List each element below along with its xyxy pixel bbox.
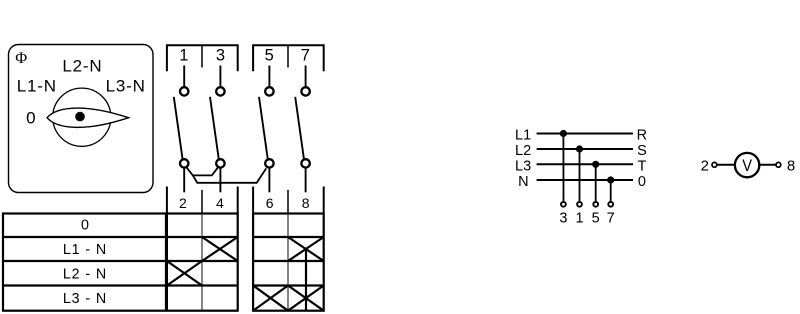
wire link terminals 2-4 bbox=[187, 167, 218, 175]
wire terminal 6 down bbox=[268, 168, 270, 192]
contact circle terminal 6 bbox=[265, 159, 273, 167]
open terminal circle 7 bbox=[608, 202, 613, 207]
contact circle terminal 2 bbox=[180, 159, 188, 167]
svg-text:4: 4 bbox=[216, 195, 224, 211]
wire terminal 7 to contact bbox=[305, 66, 307, 87]
svg-text:7: 7 bbox=[607, 210, 615, 226]
rotary switch S1 front-plate box bbox=[9, 45, 154, 193]
wire terminal 8 down bbox=[305, 168, 307, 192]
switching table columns 6 and 8 bbox=[253, 214, 324, 311]
svg-text:8: 8 bbox=[787, 157, 795, 174]
contact circle terminal 3 bbox=[216, 87, 224, 95]
svg-text:V: V bbox=[742, 157, 752, 175]
wire N bus bbox=[537, 179, 633, 181]
svg-text:L2 - N: L2 - N bbox=[63, 266, 107, 282]
svg-text:8: 8 bbox=[302, 195, 310, 211]
contact circle terminal 1 bbox=[180, 87, 188, 95]
svg-text:L3 - N: L3 - N bbox=[63, 291, 107, 307]
wire terminal 5 to contact bbox=[268, 66, 270, 87]
svg-text:L2: L2 bbox=[515, 143, 531, 159]
voltmeter V1 body bbox=[735, 153, 759, 177]
svg-text:L1 - N: L1 - N bbox=[63, 242, 107, 258]
contact circle terminal 5 bbox=[265, 87, 273, 95]
contact closed X: column 8 row L3-N bbox=[288, 286, 324, 311]
contact closed X: column 8 row L1-N bbox=[288, 237, 324, 261]
switch blade contact 7-8 bbox=[295, 97, 304, 159]
svg-text:0: 0 bbox=[81, 218, 89, 234]
svg-text:3: 3 bbox=[216, 46, 225, 64]
switch blade contact 5-6 bbox=[259, 97, 268, 159]
divider between terminals 1 and 3 bbox=[201, 45, 203, 67]
svg-text:2: 2 bbox=[179, 195, 187, 211]
wire tap L2 to terminal 1 bbox=[579, 149, 581, 201]
wire to voltmeter left bbox=[717, 164, 734, 166]
divider between terminals 5 and 7 bbox=[287, 45, 289, 67]
svg-text:S: S bbox=[637, 143, 647, 159]
lower terminal bracket 6-8 bbox=[253, 187, 324, 214]
wire tap L1 to terminal 3 bbox=[562, 134, 564, 202]
contact closed X: column 6 row L3-N bbox=[253, 286, 288, 311]
svg-text:T: T bbox=[637, 159, 646, 175]
terminal strip bracket 1-3 bbox=[167, 45, 238, 71]
wire link terminals 2-6 bbox=[193, 168, 266, 182]
contact circle terminal 8 bbox=[301, 159, 309, 167]
svg-text:6: 6 bbox=[266, 195, 274, 211]
voltmeter right terminal circle bbox=[776, 162, 781, 167]
svg-text:0: 0 bbox=[26, 109, 35, 128]
wire tap L3 to terminal 5 bbox=[595, 164, 597, 201]
open terminal circle 5 bbox=[593, 202, 598, 207]
svg-text:L1-N: L1-N bbox=[17, 77, 57, 96]
svg-text:3: 3 bbox=[559, 210, 567, 226]
contact closed X: column 2 row L2-N bbox=[167, 261, 202, 286]
wire terminal 1 to contact bbox=[183, 66, 185, 87]
divider between terminals 2 and 4 bbox=[201, 190, 203, 214]
wire terminal 4 down bbox=[219, 168, 221, 192]
divider between terminals 6 and 8 bbox=[287, 190, 289, 214]
wire terminal 3 to contact bbox=[219, 66, 221, 87]
switching table label column bbox=[3, 214, 166, 311]
wire tap N to terminal 7 bbox=[610, 180, 612, 201]
wire L3 bus bbox=[537, 163, 633, 165]
contact circle terminal 7 bbox=[301, 87, 309, 95]
svg-text:R: R bbox=[637, 128, 647, 144]
svg-text:L3-N: L3-N bbox=[106, 77, 146, 96]
svg-text:0: 0 bbox=[638, 174, 646, 190]
voltmeter left terminal circle bbox=[712, 162, 717, 167]
rotary switch handle pointing to 0 bbox=[47, 108, 129, 127]
svg-text:N: N bbox=[518, 174, 528, 190]
wire terminal 2 down bbox=[183, 168, 185, 192]
svg-text:7: 7 bbox=[301, 46, 310, 64]
svg-text:L3: L3 bbox=[515, 159, 531, 175]
junction dot on N bbox=[607, 176, 614, 183]
switching table columns 2 and 4 bbox=[167, 214, 238, 311]
contact closed X: column 4 row L1-N bbox=[202, 237, 238, 261]
knob center dot bbox=[75, 112, 85, 122]
column divider 6/8 bbox=[287, 214, 289, 311]
wire L1 bus bbox=[537, 133, 633, 135]
svg-text:L1: L1 bbox=[515, 128, 531, 144]
wire to voltmeter right bbox=[760, 164, 776, 166]
switch blade contact 3-4 bbox=[210, 97, 219, 159]
svg-text:5: 5 bbox=[265, 46, 274, 64]
terminal strip bracket 5-7 bbox=[253, 45, 324, 71]
svg-text:L2-N: L2-N bbox=[62, 57, 102, 76]
wire L2 bus bbox=[537, 148, 633, 150]
junction dot on L1 bbox=[560, 130, 567, 137]
open terminal circle 1 bbox=[577, 202, 582, 207]
open terminal circle 3 bbox=[561, 202, 566, 207]
svg-text:1: 1 bbox=[179, 46, 188, 64]
contact 8 continuity bar bbox=[305, 249, 307, 311]
svg-text:2: 2 bbox=[701, 157, 709, 174]
contact circle terminal 4 bbox=[216, 159, 224, 167]
column divider 2/4 bbox=[201, 214, 203, 311]
svg-text:5: 5 bbox=[592, 210, 600, 226]
rotary switch knob circle bbox=[53, 88, 111, 146]
switch blade contact 1-2 bbox=[174, 97, 183, 159]
lower terminal bracket 2-4 bbox=[167, 187, 238, 214]
svg-text:Φ: Φ bbox=[15, 48, 27, 67]
junction dot on L3 bbox=[592, 161, 599, 168]
junction dot on L2 bbox=[576, 145, 583, 152]
svg-text:1: 1 bbox=[575, 210, 583, 226]
